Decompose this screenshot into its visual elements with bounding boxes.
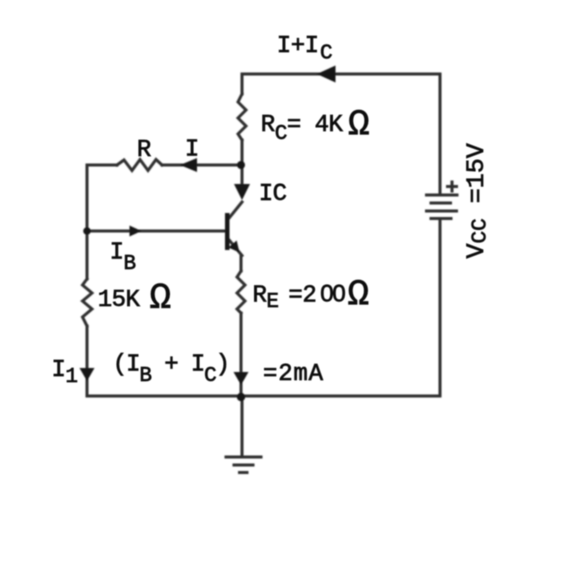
svg-text:RC= 4K: RC= 4K xyxy=(261,112,344,146)
arrow current I1 (down) xyxy=(80,368,95,381)
svg-text:=2mA: =2mA xyxy=(263,361,324,388)
wire feedback branch (R) xyxy=(87,164,242,167)
arrow current IB (right) xyxy=(130,226,142,237)
wire top horizontal (collector node to Vcc) xyxy=(242,73,440,76)
transistor Q1 base bar xyxy=(225,213,230,250)
wire left vertical xyxy=(86,165,89,396)
battery VCC plate 2 xyxy=(431,202,451,205)
svg-text:(IB + IC): (IB + IC) xyxy=(113,352,229,389)
wire base horizontal xyxy=(87,230,225,233)
arrow current I+IC (left) xyxy=(317,66,336,83)
svg-text:I+IC: I+IC xyxy=(277,33,332,66)
svg-text:15K: 15K xyxy=(98,287,141,314)
wire right lower (battery - to bottom rail) xyxy=(439,219,442,397)
svg-text:IB: IB xyxy=(110,240,136,277)
transistor Q1 emitter lead xyxy=(230,241,243,256)
svg-text:I1: I1 xyxy=(52,357,78,389)
transistor Q1 collector lead xyxy=(230,202,243,218)
battery plus sign xyxy=(448,182,457,191)
svg-text:I: I xyxy=(185,137,199,164)
resistor RE 200 xyxy=(237,271,245,313)
svg-text:Ω: Ω xyxy=(150,278,172,319)
transistor Q1 emitter arrow xyxy=(228,241,239,253)
node junction base/15K xyxy=(83,227,91,235)
wire emitter vertical xyxy=(240,255,243,396)
svg-text:Ω: Ω xyxy=(348,275,370,316)
svg-text:R: R xyxy=(137,137,151,164)
arrow current IC (down) xyxy=(234,184,250,200)
node junction emitter/ground xyxy=(237,393,245,401)
wire right upper (to battery +) xyxy=(439,74,442,195)
wire ground stem xyxy=(241,397,244,457)
svg-text:VCC =15V: VCC =15V xyxy=(462,143,493,258)
svg-text:Ω: Ω xyxy=(348,105,370,146)
battery VCC plate 1 xyxy=(427,194,458,197)
arrow current I (left) xyxy=(180,158,197,172)
wire bottom rail xyxy=(87,395,440,398)
ground bar 3 xyxy=(240,471,248,474)
resistor 15K ohm xyxy=(83,279,93,326)
battery VCC plate 4 xyxy=(431,217,451,220)
ground bar 1 xyxy=(226,456,261,459)
node junction collector/feedback xyxy=(237,161,245,169)
resistor R xyxy=(117,160,162,171)
wire collector vertical xyxy=(241,74,244,186)
arrow current IB+IC (down) xyxy=(234,372,249,385)
battery VCC plate 3 xyxy=(427,210,457,213)
svg-text:RE =200: RE =200 xyxy=(253,281,346,315)
resistor RC 4K xyxy=(238,94,246,140)
ground bar 2 xyxy=(234,464,253,467)
svg-text:IC: IC xyxy=(259,181,287,208)
